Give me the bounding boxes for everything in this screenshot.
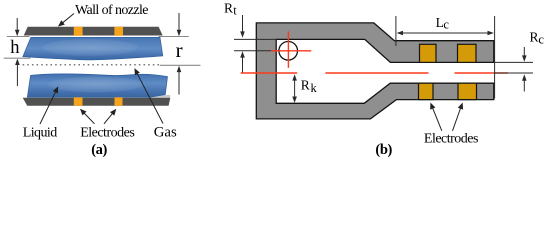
R_t reference line upper (inner wall extension) xyxy=(234,38,277,40)
h dimension reference line upper xyxy=(7,36,30,38)
svg-text:r: r xyxy=(176,38,183,62)
red centerline (b) xyxy=(241,72,508,74)
svg-text:t: t xyxy=(233,4,237,18)
h dimension arrow upper xyxy=(15,18,20,36)
red center mark vertical xyxy=(287,32,289,68)
h dimension reference line lower xyxy=(4,57,31,59)
centerline dotted (a) xyxy=(23,64,159,66)
L_c double arrow xyxy=(397,31,494,36)
R_c reference line upper (bore top extension) xyxy=(494,61,533,63)
leader arrow electrodes left xyxy=(80,109,95,124)
electrode top-right (a) xyxy=(114,27,123,36)
R_c upper arrow xyxy=(522,47,527,62)
svg-text:h: h xyxy=(10,38,19,58)
r dimension lower arrow xyxy=(177,66,182,95)
svg-text:Electrodes: Electrodes xyxy=(424,131,478,146)
top wall bar (a) xyxy=(24,27,163,36)
torus circle (b) xyxy=(279,42,298,61)
electrode capillary bottom-1 (b) xyxy=(419,83,434,99)
R_k dimension double arrow xyxy=(292,74,297,103)
svg-text:(a): (a) xyxy=(91,142,107,158)
svg-text:Electrodes: Electrodes xyxy=(80,126,134,141)
electrode capillary top-1 (b) xyxy=(420,44,437,62)
bottom wall bar (a) xyxy=(23,98,171,106)
svg-text:R: R xyxy=(301,77,310,92)
svg-text:k: k xyxy=(311,81,318,95)
electrode capillary top-2 (b) xyxy=(458,44,477,62)
r dimension reference line lower xyxy=(160,64,201,66)
h dimension arrow lower xyxy=(15,59,20,86)
svg-text:Wall of nozzle: Wall of nozzle xyxy=(75,3,148,18)
leader arrow electrodes right xyxy=(104,109,116,124)
svg-text:c: c xyxy=(443,17,449,31)
r dimension reference line upper right xyxy=(159,36,189,38)
R_t reference line lower (through circle center) xyxy=(234,50,281,52)
svg-text:Gas: Gas xyxy=(154,125,177,141)
svg-text:Liquid: Liquid xyxy=(23,126,58,141)
svg-text:(b): (b) xyxy=(375,142,392,158)
svg-text:R: R xyxy=(224,1,233,16)
leader arrow to wall xyxy=(58,14,74,27)
electrode bottom-left (a) xyxy=(74,97,83,106)
electrode bottom-right (a) xyxy=(115,97,123,106)
liquid layer upper (a) xyxy=(23,37,163,60)
L_c left tick xyxy=(395,16,397,46)
leader arrow electrodes-b left xyxy=(430,103,442,131)
electrode capillary bottom-2 (b) xyxy=(458,83,477,99)
bar top face sliver (a) xyxy=(149,95,170,98)
leader arrow Gas xyxy=(134,68,163,123)
R_t lower arrow xyxy=(240,51,245,73)
r dimension upper arrow xyxy=(177,13,182,36)
R_c lower arrow xyxy=(522,74,527,91)
leader arrow electrodes-b right xyxy=(453,103,464,131)
electrode top-left (a) xyxy=(74,27,83,36)
centerline black tail xyxy=(495,72,533,74)
svg-text:R: R xyxy=(530,30,539,45)
leader arrow Liquid xyxy=(40,86,58,124)
red center mark horizontal xyxy=(271,50,311,52)
R_t upper arrow xyxy=(240,15,245,38)
svg-text:c: c xyxy=(538,32,544,46)
L_c right tick xyxy=(494,16,496,99)
nozzle wall body (b) xyxy=(256,23,494,119)
liquid layer lower (a) xyxy=(27,74,167,97)
